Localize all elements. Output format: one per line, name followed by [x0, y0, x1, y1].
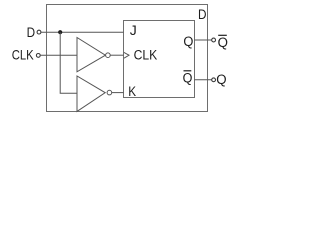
inverter U3 (D path): [77, 76, 105, 111]
terminal CLK: [36, 54, 40, 58]
svg-text:J: J: [130, 22, 137, 38]
clock edge symbol on CLK pin: [124, 52, 129, 58]
svg-text:CLK: CLK: [12, 46, 34, 62]
svg-text:D: D: [198, 6, 206, 22]
svg-text:Q: Q: [183, 70, 193, 86]
inverter U2 (clock path): [77, 38, 105, 72]
svg-text:Q: Q: [216, 72, 226, 87]
svg-text:CLK: CLK: [134, 47, 158, 63]
terminal Q output: [212, 78, 216, 82]
wire Q to output terminal: [194, 39, 212, 41]
svg-text:D: D: [27, 24, 35, 40]
pin label Q-bar: [183, 70, 193, 86]
wire U3 output to K pin: [112, 92, 124, 94]
junction on D wire: [58, 30, 62, 34]
svg-text:Q: Q: [183, 34, 193, 50]
outer D flip-flop block: [47, 5, 208, 112]
JK flip-flop U1: [124, 21, 195, 98]
wire junction down to inverter U3 input: [60, 32, 77, 93]
wire CLK to inverter U2 input: [40, 54, 77, 56]
bubble U3: [107, 90, 112, 95]
terminal D: [37, 30, 41, 34]
bubble U2: [106, 53, 111, 58]
wire U2 output to CLK pin: [110, 54, 123, 56]
wire Q-bar to output terminal: [194, 79, 212, 81]
svg-text:K: K: [128, 83, 136, 99]
label Q-bar (output): [218, 34, 228, 49]
wire D to J: [41, 31, 124, 33]
svg-text:Q: Q: [218, 34, 228, 49]
terminal Q-bar output: [212, 38, 216, 42]
